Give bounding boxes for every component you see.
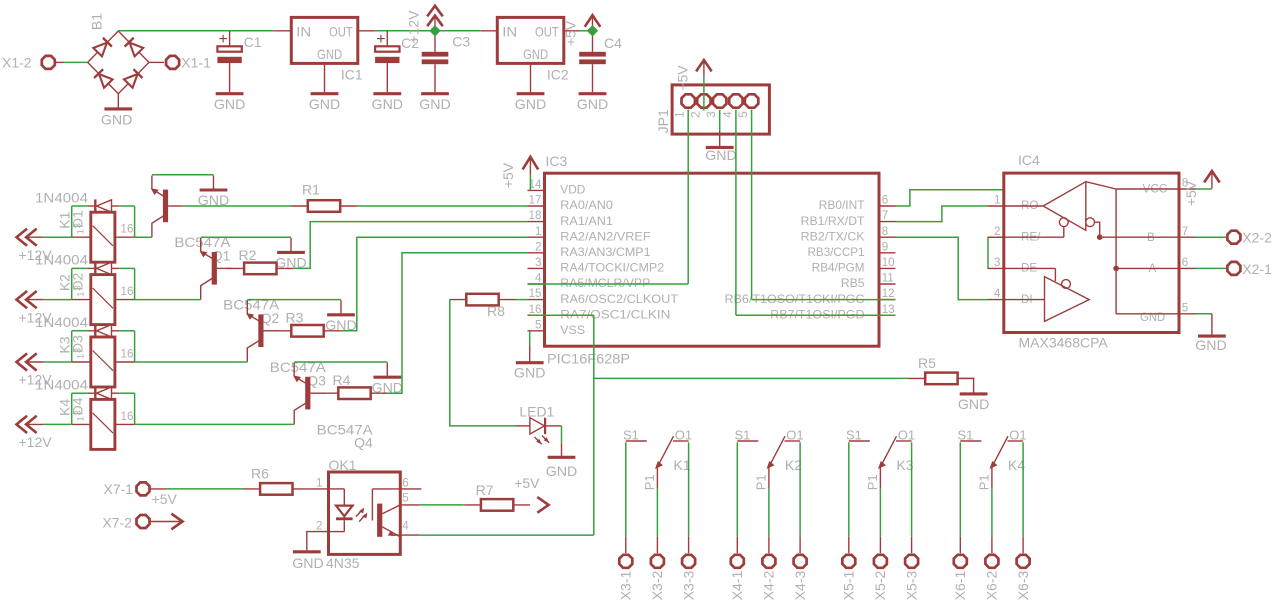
wire [449,299,451,301]
svg-text:GND: GND [309,96,341,112]
resistor R1 [308,200,340,212]
wire [656,488,658,537]
ic IC4 MAX3468CPA [1004,173,1179,332]
svg-text:+5V: +5V [500,162,516,188]
svg-text:X4-3: X4-3 [792,571,808,601]
wire [580,30,592,32]
svg-text:S1: S1 [623,427,639,442]
capacitor C4 [592,31,594,52]
wire [719,110,721,131]
svg-text:OUT: OUT [535,24,559,40]
wire [72,205,88,207]
svg-text:1N4004: 1N4004 [35,189,88,205]
svg-text:1: 1 [535,225,541,238]
wire [987,237,989,268]
svg-text:X2-1: X2-1 [1242,261,1272,277]
connector X3-2 [656,537,658,553]
svg-text:S1: S1 [735,427,751,442]
contact lever P1 (K4) [992,436,1008,466]
svg-text:2: 2 [689,111,702,117]
svg-text:IC4: IC4 [1018,152,1040,168]
svg-text:RA0/AN0: RA0/AN0 [560,199,613,212]
connector X7-2 [137,515,150,528]
svg-text:RB3/CCP1: RB3/CCP1 [808,246,865,259]
ground [958,378,974,392]
capacitor C1 [229,31,231,46]
svg-text:13: 13 [882,303,895,316]
svg-text:GND: GND [958,396,990,412]
wire [420,504,464,506]
svg-text:RA2/AN2/VREF: RA2/AN2/VREF [560,230,650,243]
wire [593,315,595,535]
wire [529,331,531,346]
svg-text:X7-1: X7-1 [104,481,134,497]
svg-text:1: 1 [316,476,322,489]
contact S1 (K2) [737,440,758,442]
svg-text:X1-2: X1-2 [2,54,32,70]
contact lever P1 (K3) [881,436,897,466]
IC3 pin 3 RA4/TOCKI/CMP2 [528,267,545,269]
svg-text:8: 8 [882,225,888,238]
ground [386,363,388,378]
IC3 pin 4 RA5/MCLR/VPP [528,283,545,285]
svg-text:1: 1 [76,416,87,421]
supply +5V [150,521,180,523]
svg-text:P1: P1 [976,474,991,490]
svg-text:3: 3 [705,111,718,117]
connector X2-2 [1227,231,1240,244]
svg-text:3: 3 [73,285,84,290]
svg-text:6: 6 [402,476,408,489]
wire [688,442,690,537]
svg-text:GND: GND [705,147,737,163]
svg-text:RB2/TX/CK: RB2/TX/CK [801,230,865,243]
wire [799,442,801,537]
svg-text:10: 10 [882,256,895,269]
supply +12V [17,291,28,308]
ground [719,131,721,146]
IC3 pin 16 RA7/OSC1/CLKIN [528,314,545,316]
wire [71,393,73,424]
connector X6-1 [959,537,961,553]
svg-text:16: 16 [121,348,134,361]
wire [594,377,909,379]
svg-text:B1: B1 [89,13,105,30]
svg-text:RB4/PGM: RB4/PGM [812,262,865,275]
contact S1 (K4) [960,440,981,442]
connector X7-1 [137,482,150,495]
IC4 pin 4 [988,299,1004,301]
regulator IC2 [497,17,564,63]
svg-text:P1: P1 [865,474,880,490]
svg-text:18: 18 [529,209,542,222]
ground [1211,314,1213,336]
wire [118,30,274,32]
svg-text:S1: S1 [846,427,862,442]
IC3 pin 5 VSS [528,330,545,332]
ground [340,300,342,315]
svg-text:4: 4 [535,272,542,285]
connector X1-1 [149,61,164,63]
wire [1196,313,1212,315]
wire [450,300,515,426]
svg-text:GND: GND [546,463,578,479]
connector X6-2 [991,537,993,553]
wire [911,442,913,537]
IC4 internal buffers [1004,205,1043,207]
svg-text:IC2: IC2 [547,67,569,83]
microcontroller IC3 PIC16F628P [545,173,880,346]
wire [896,237,988,299]
IC3 pin 15 RA6/OSC2/CLKOUT [528,299,545,301]
svg-text:1: 1 [76,229,87,234]
svg-text:1N4004: 1N4004 [35,252,88,268]
svg-text:X6-1: X6-1 [952,571,968,601]
supply +12V [434,15,436,29]
svg-text:RB1/RX/DT: RB1/RX/DT [801,215,865,228]
wire [768,488,770,537]
svg-text:R3: R3 [286,310,304,326]
IC3 pin 17 RA0/AN0 [528,205,545,207]
svg-text:3: 3 [994,256,1000,269]
svg-text:1: 1 [994,194,1000,207]
ground [529,346,531,363]
svg-text:+5V: +5V [1183,180,1199,206]
wire [625,442,627,537]
svg-text:4N35: 4N35 [326,555,360,571]
svg-text:GND: GND [515,96,547,112]
IC3 pin 11 RB5 [879,283,896,285]
svg-text:9: 9 [882,240,888,253]
wire [420,534,594,536]
svg-text:3: 3 [73,410,84,415]
svg-text:+: + [376,31,385,48]
connector X6-3 [1022,537,1024,553]
pin header JP1 [672,85,769,134]
svg-text:+: + [219,31,228,48]
wire [166,488,244,490]
IC3 pin 14 VDD [528,189,545,191]
transistor Q3 BC547A [258,314,263,347]
svg-text:1: 1 [76,291,87,296]
svg-text:R2: R2 [239,247,257,263]
ground [117,94,119,109]
svg-text:4: 4 [402,520,409,533]
IC3 pin 9 RB3/CCP1 [879,252,896,254]
svg-text:X5-2: X5-2 [872,571,888,601]
ground [213,175,215,190]
svg-text:GND: GND [1195,337,1227,353]
wire [119,205,134,207]
svg-text:S1: S1 [958,427,974,442]
diode D2 1N4004 [88,267,95,269]
contact S1 (K1) [626,440,647,442]
svg-text:R4: R4 [333,372,351,388]
svg-text:3: 3 [73,348,84,353]
svg-text:GND: GND [292,555,324,571]
bridge rectifier B1 [88,31,149,94]
wire [703,77,705,111]
wire [687,110,689,285]
svg-text:RA1/AN1: RA1/AN1 [560,215,613,228]
relay coil K2 [72,299,91,301]
wire [735,110,737,316]
IC4 pin 8 [1179,188,1196,190]
IC3 pin 12 RB6/T1OSO/T1CKI/PGC [879,299,896,301]
IC4 pin 3 [988,267,1004,269]
resistor R3 [291,325,323,337]
connector X1-2 [42,56,55,69]
wire [134,268,136,299]
relay coil K4 [72,423,91,425]
svg-text:O1: O1 [786,427,803,442]
svg-text:RA6/OSC2/CLKOUT: RA6/OSC2/CLKOUT [560,293,678,306]
wire [896,206,988,222]
ground [311,92,339,95]
svg-text:IN: IN [296,24,311,40]
wire [119,392,134,394]
svg-text:RB5: RB5 [841,277,865,290]
wire [959,442,961,537]
regulator IC1 [291,17,358,63]
svg-text:IN: IN [502,24,517,40]
svg-text:VSS: VSS [560,324,585,337]
svg-text:+12V: +12V [19,434,53,450]
resistor R7 [481,499,513,511]
IC4 pin 5 [1179,313,1196,315]
svg-text:X4-1: X4-1 [729,571,745,601]
wire [991,488,993,537]
supply +12V [17,416,28,433]
wire [896,190,1037,238]
svg-text:GND: GND [523,46,548,62]
supply +5V [1211,174,1213,189]
svg-text:K3: K3 [57,336,73,353]
svg-text:Q4: Q4 [354,435,373,451]
svg-text:1: 1 [674,111,687,117]
supply +12V [17,353,28,370]
wire [43,361,71,363]
wire [134,331,136,362]
svg-text:6: 6 [1182,256,1188,269]
wire [1022,442,1024,537]
svg-text:X5-3: X5-3 [903,571,919,601]
wire [43,236,71,238]
svg-text:2: 2 [535,240,541,253]
wire [135,423,295,425]
wire [135,236,152,238]
svg-text:R1: R1 [302,182,320,198]
wire [119,267,134,269]
relay coil K3 [72,361,91,363]
wire [293,222,527,269]
connector X2-1 [1227,262,1240,275]
svg-text:GND: GND [514,365,546,381]
wire [43,423,71,425]
svg-text:P1: P1 [642,474,657,490]
svg-text:C4: C4 [604,35,622,51]
svg-text:X4-2: X4-2 [761,571,777,601]
supply +5V [703,62,705,77]
IC3 pin 8 RB2/TX/CK [879,236,896,238]
ground [373,92,401,95]
svg-text:X5-1: X5-1 [841,571,857,601]
capacitor C3 [434,31,436,52]
svg-text:16: 16 [121,285,134,298]
diode D1 1N4004 [88,205,95,207]
svg-text:+5V: +5V [674,65,690,91]
supply +12V [17,229,28,246]
wire [1196,267,1227,269]
svg-text:R8: R8 [487,303,505,319]
capacitor C2 [386,31,388,46]
wire [43,299,71,301]
svg-text:X7-2: X7-2 [102,515,132,531]
diode D4 1N4004 [88,392,95,394]
svg-text:K4: K4 [57,399,73,416]
IC3 pin 1 RA2/AN2/VREF [528,236,545,238]
svg-text:GND: GND [317,46,342,62]
svg-text:RA3/AN3/CMP1: RA3/AN3/CMP1 [560,246,650,259]
svg-text:2: 2 [316,520,322,533]
resistor R6 [260,483,292,495]
svg-text:15: 15 [529,287,542,300]
svg-text:16: 16 [121,223,134,236]
svg-text:2: 2 [994,225,1000,238]
svg-text:K1: K1 [57,211,73,228]
contact S1 (K3) [849,440,870,442]
supply +5V [592,16,594,29]
svg-text:O1: O1 [1009,427,1026,442]
svg-text:GND: GND [214,96,246,112]
junction [429,25,440,36]
svg-text:3: 3 [73,223,84,228]
svg-text:JP1: JP1 [655,109,671,133]
wire [848,442,850,537]
resistor R5 [925,373,957,385]
connector X3-3 [688,537,690,553]
svg-text:GND: GND [577,96,609,112]
IC4 pin 7 [1179,236,1196,238]
wire [71,268,73,299]
svg-text:5: 5 [535,318,541,331]
connector X4-3 [799,537,801,553]
wire [1196,188,1212,190]
svg-text:PIC16F628P: PIC16F628P [547,351,630,367]
connector X4-2 [768,537,770,553]
wire [357,205,528,207]
transistor Q2 BC547A [212,252,217,285]
IC3 pin 13 RB7/T1OSI/PGD [879,314,896,316]
wire [134,393,136,424]
optocoupler OK1 4N35 [329,472,401,554]
svg-text:17: 17 [529,194,542,207]
svg-text:1N4004: 1N4004 [35,377,88,393]
svg-text:X3-1: X3-1 [618,571,634,601]
svg-text:MAX3468CPA: MAX3468CPA [1019,335,1109,351]
svg-text:4: 4 [994,287,1001,300]
svg-text:O1: O1 [898,427,915,442]
wire [72,330,88,332]
svg-text:+12V: +12V [405,10,421,44]
connector X5-2 [879,537,881,553]
svg-text:X3-2: X3-2 [649,571,665,601]
junction [587,25,598,36]
transistor Q4 BC547A [305,377,310,410]
wire [71,206,73,237]
wire [72,267,88,269]
IC3 pin 6 RB0/INT [879,205,896,207]
svg-text:X6-2: X6-2 [984,571,1000,601]
svg-text:16: 16 [529,303,542,316]
wire [561,426,563,443]
svg-text:K2: K2 [57,274,73,291]
svg-text:5: 5 [1182,301,1188,314]
ground [579,92,607,95]
connector X5-1 [848,537,850,553]
svg-text:IC3: IC3 [546,153,568,169]
wire [134,206,136,237]
svg-text:R7: R7 [476,482,494,498]
wire [516,299,528,301]
wire [71,331,73,362]
svg-text:3: 3 [535,256,541,269]
svg-text:GND: GND [372,96,404,112]
wire [247,299,341,301]
connector X4-1 [736,537,738,553]
ground [216,92,244,95]
ground [561,443,563,457]
svg-text:VDD: VDD [560,184,585,197]
svg-text:X1-1: X1-1 [181,54,211,70]
svg-text:1N4004: 1N4004 [35,314,88,330]
svg-text:7: 7 [1182,225,1188,238]
wire [294,361,387,363]
svg-text:GND: GND [419,96,451,112]
connector X3-1 [625,537,627,553]
wire [309,488,328,490]
svg-text:11: 11 [882,272,894,285]
svg-text:5: 5 [402,492,408,505]
svg-text:RB0/INT: RB0/INT [819,199,865,212]
svg-text:OUT: OUT [329,24,353,40]
IC3 pin 7 RB1/RX/DT [879,221,896,223]
wire [973,377,975,379]
wire [736,442,738,537]
svg-text:6: 6 [882,194,888,207]
wire [530,314,594,316]
led LED1 [515,425,531,427]
svg-text:LED1: LED1 [519,404,554,420]
svg-text:4: 4 [721,111,734,118]
wire [879,488,881,537]
IC3 pin 10 RB4/PGM [879,267,896,269]
svg-text:O1: O1 [675,427,692,442]
wire [388,253,528,393]
wire [751,110,753,300]
diode D3 1N4004 [88,330,95,332]
wire [1196,236,1227,238]
IC4 pin 1 [988,205,1004,207]
svg-text:+5V: +5V [563,20,579,46]
supply +5V [529,173,531,190]
IC4 pin 6 [1179,267,1196,269]
svg-text:IC1: IC1 [341,67,363,83]
ground [517,92,545,95]
svg-text:+5V: +5V [514,475,540,491]
transistor Q1 BC547A [163,190,168,223]
svg-text:5: 5 [737,111,750,117]
